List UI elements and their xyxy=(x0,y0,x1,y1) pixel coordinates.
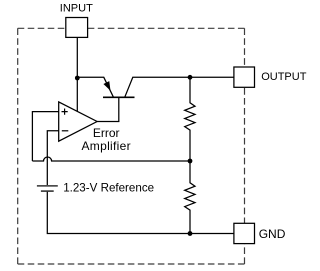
wire noninverting input to feedback line xyxy=(32,112,58,161)
wire reference to ground rail xyxy=(47,192,234,234)
transistor Q1 collector xyxy=(125,77,190,97)
INPUT pad xyxy=(66,18,88,38)
svg-text:Amplifier: Amplifier xyxy=(82,139,131,153)
battery V1 negative plate xyxy=(41,190,54,192)
node A: input supply junction xyxy=(75,76,80,81)
wire op-amp positive supply (node to amplifier top edge) xyxy=(76,78,78,112)
svg-text:GND: GND xyxy=(259,227,286,241)
wire from INPUT pad down to supply node xyxy=(76,37,78,78)
resistor R2 (lower divider) xyxy=(185,161,195,234)
node D: ground rail junction xyxy=(188,231,193,236)
wire collector to OUTPUT pad xyxy=(190,76,234,78)
node C: feedback node xyxy=(188,159,193,164)
svg-text:INPUT: INPUT xyxy=(60,2,93,14)
resistor R1 (upper divider) xyxy=(185,77,195,161)
dashed boundary box xyxy=(18,28,245,264)
svg-text:1.23-V Reference: 1.23-V Reference xyxy=(63,181,154,194)
transistor Q1 emitter arrow (PNP) xyxy=(104,82,110,90)
node B: output junction xyxy=(188,75,193,80)
wire inverting input to reference xyxy=(47,131,58,185)
GND pad xyxy=(234,223,255,243)
wire feedback line with hop over reference wire xyxy=(32,157,190,161)
transistor Q1 base bar xyxy=(103,96,135,98)
wire base of Q1 down to amplifier output xyxy=(118,97,120,121)
op-amp U1: error amplifier triangle xyxy=(59,102,97,141)
op-amp U1 minus sign (inverting input) xyxy=(62,130,69,132)
OUTPUT pad xyxy=(234,67,255,87)
op-amp U1 plus sign (noninverting input) xyxy=(62,109,68,115)
battery V1: 1.23-V reference, positive plate xyxy=(37,185,58,187)
svg-text:Error: Error xyxy=(93,126,120,140)
svg-text:OUTPUT: OUTPUT xyxy=(261,71,307,83)
wire emitter (supply node to transistor emitter) xyxy=(77,77,113,97)
wire amplifier output to base wire xyxy=(97,121,119,123)
